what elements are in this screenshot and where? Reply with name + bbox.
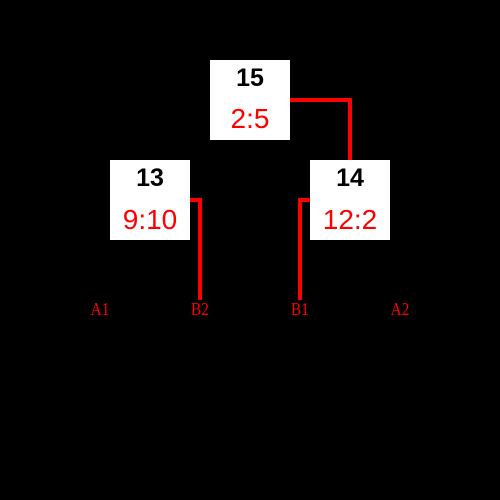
node label A1 [75,300,126,318]
match 15 number [210,66,290,91]
wire from box 14 horizontal [298,198,310,202]
match 15 score 2:5 [210,105,290,133]
wire from box 13 vertical down to node B2 [198,198,202,300]
wire final vertical down into box 14 [348,98,352,160]
match 13 number [110,166,190,191]
node label B1 [275,300,326,318]
match 14 number [310,166,390,191]
match box 13 [110,160,190,240]
wire from box 14 vertical down to node B1 [298,198,302,300]
match 14 score 12:2 [310,206,390,234]
wire final horizontal from box 15 to above box 14 [290,98,352,102]
node label A2 [375,300,426,318]
match 13 score 9:10 [110,206,190,234]
match box 15 [210,60,290,140]
wire from box 13 horizontal [190,198,202,202]
match box 14 [310,160,390,240]
node label B2 [175,300,226,318]
